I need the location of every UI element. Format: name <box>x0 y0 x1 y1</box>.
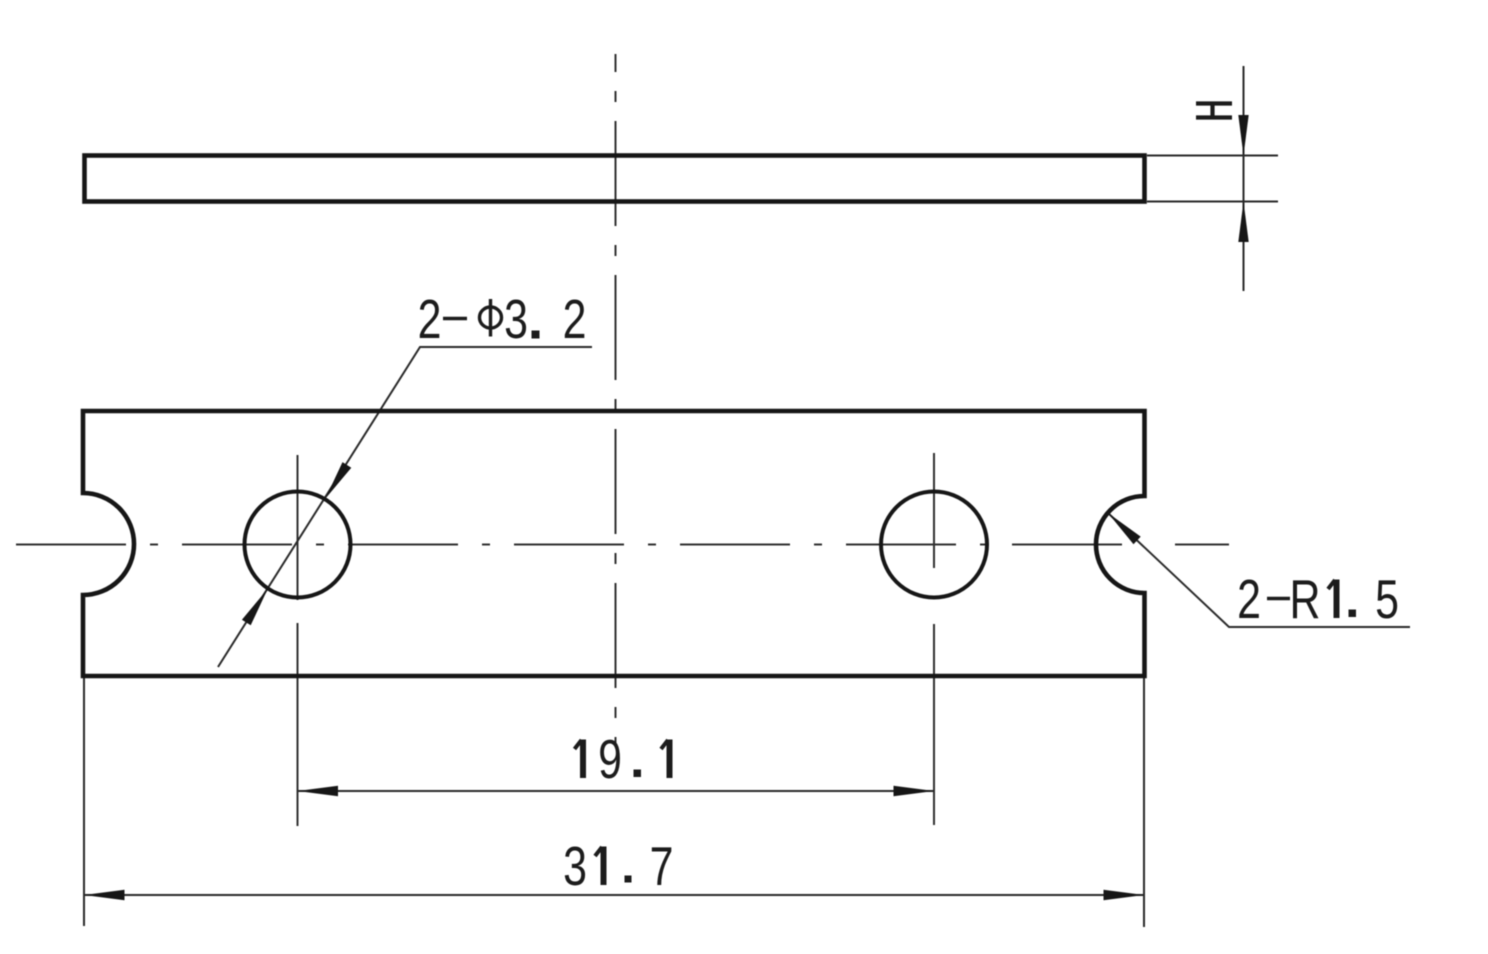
svg-text:2: 2 <box>418 289 442 350</box>
svg-text:3: 3 <box>504 289 528 350</box>
svg-text:3: 3 <box>563 836 587 897</box>
svg-text:7: 7 <box>650 836 674 897</box>
svg-text:5: 5 <box>1375 569 1399 630</box>
svg-text:9: 9 <box>598 729 622 790</box>
svg-text:R: R <box>1290 569 1321 630</box>
svg-text:2: 2 <box>563 289 587 350</box>
svg-text:2: 2 <box>1237 569 1261 630</box>
